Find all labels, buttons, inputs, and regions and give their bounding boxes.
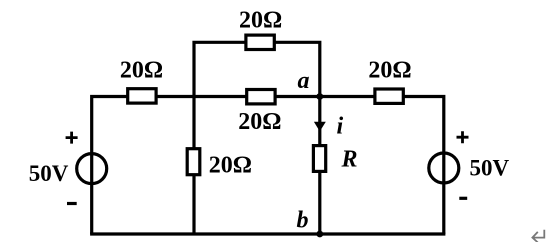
plus sign left source	[66, 132, 78, 144]
minus sign left source	[67, 202, 77, 205]
wire outer loop: left vertical, middle horizontal, right vertical	[92, 97, 444, 235]
resistor 20ohm right branch	[375, 89, 403, 103]
resistor 20ohm center middle branch	[247, 90, 275, 104]
plus sign right source	[457, 131, 469, 143]
resistor 20ohm vertical shunt branch	[187, 149, 200, 175]
svg-text:20Ω: 20Ω	[209, 153, 252, 179]
svg-text:50V: 50V	[29, 161, 69, 186]
voltage source V1 circle left	[77, 154, 107, 184]
svg-text:a: a	[298, 68, 310, 94]
resistor 20ohm top branch	[246, 35, 274, 49]
svg-text:20Ω: 20Ω	[238, 109, 281, 135]
svg-text:20Ω: 20Ω	[368, 58, 411, 84]
svg-text:20Ω: 20Ω	[239, 8, 282, 34]
pilcrow return mark	[532, 230, 544, 242]
minus sign right source	[459, 197, 467, 200]
wire bottom horizontal b-rail	[90, 232, 445, 235]
resistor 20ohm left middle branch	[128, 89, 156, 103]
current arrow i	[314, 122, 326, 132]
node a junction dot	[316, 93, 323, 100]
wire top loop: middle vertical, top horizontal, a vertical	[194, 42, 320, 234]
svg-text:50V: 50V	[469, 156, 509, 181]
svg-text:i: i	[337, 113, 344, 139]
voltage source V2 circle right	[429, 153, 459, 183]
svg-text:20Ω: 20Ω	[120, 57, 163, 83]
resistor R vertical branch	[313, 146, 325, 172]
svg-text:R: R	[341, 147, 358, 173]
node b junction dot	[316, 231, 323, 238]
svg-text:b: b	[297, 207, 309, 233]
